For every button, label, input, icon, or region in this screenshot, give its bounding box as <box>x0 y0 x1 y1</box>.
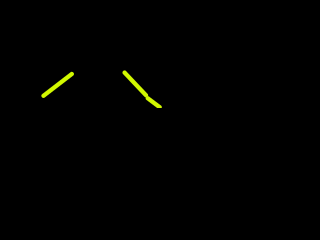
right stroke upper segment <box>125 73 146 96</box>
right stroke lower segment <box>148 98 160 107</box>
left stroke <box>44 74 72 96</box>
